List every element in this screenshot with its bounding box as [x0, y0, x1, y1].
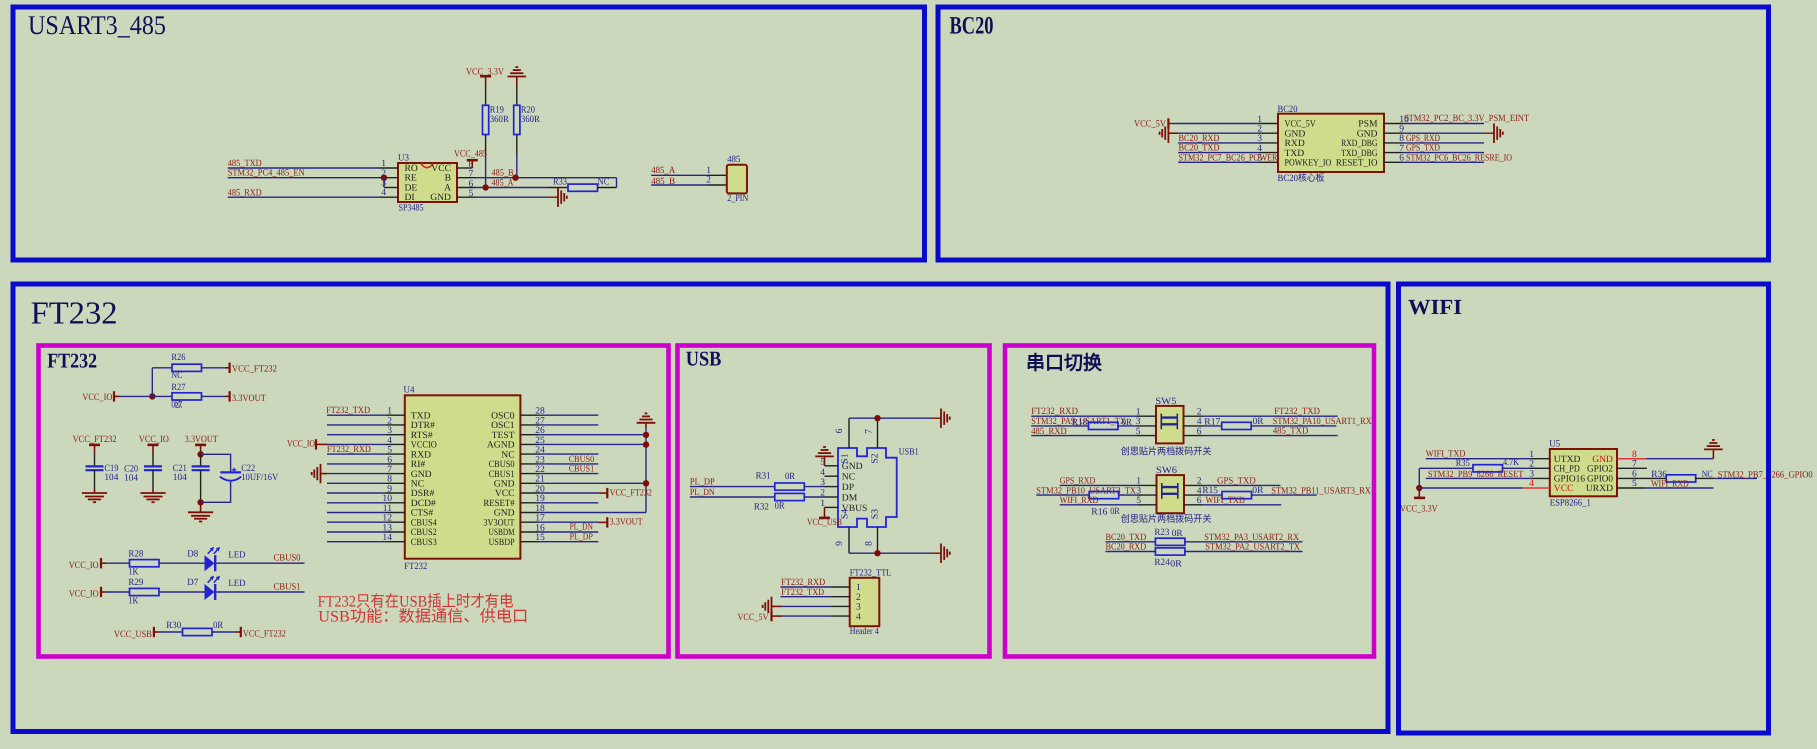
USB1 pin 8 stub	[877, 527, 879, 553]
capacitor C19 104	[86, 465, 104, 467]
resistor R30 0R	[183, 628, 213, 635]
wire SW5.2 FT232_TXD	[1184, 415, 1203, 417]
wire VCC_IO to R29	[106, 591, 129, 593]
svg-text:CBUS0: CBUS0	[274, 553, 301, 564]
junction C21/C22 top	[197, 451, 203, 457]
ground (BC20.9 right)	[1484, 132, 1494, 134]
svg-text:VCC_IO: VCC_IO	[139, 434, 169, 445]
connector USB1 outline	[838, 448, 897, 527]
wire C20 to ground	[152, 470, 154, 488]
wire GPS_TXD from BC20.7	[1384, 152, 1403, 154]
wire 485_RXD to SW5.5	[1031, 435, 1136, 437]
svg-text:R23: R23	[1154, 527, 1169, 538]
wire VCC to U5.4 (red)	[1419, 487, 1522, 489]
wire STM32_PC6_BC26_RESRE_IO from BC20.6	[1384, 161, 1403, 163]
wire RE-DE jog to U3.3	[383, 178, 385, 188]
wire R35 to U5.2	[1503, 467, 1531, 469]
svg-text:360R: 360R	[490, 114, 510, 125]
wire 485_RXD to U3.4	[228, 196, 379, 198]
svg-text:U5: U5	[1549, 438, 1560, 449]
wire WIFI_RXD to SW6.5	[1060, 504, 1137, 506]
svg-text:360R: 360R	[521, 114, 541, 125]
svg-text:NC: NC	[598, 176, 610, 187]
svg-text:104: 104	[124, 473, 138, 484]
svg-text:R30: R30	[166, 620, 181, 631]
svg-text:NC: NC	[842, 472, 855, 483]
wire STM32_PB9_8266_RESET to U5.3	[1426, 477, 1531, 479]
junction R26/R27	[149, 393, 155, 399]
wire R32 to USB1.2 DM	[804, 496, 824, 498]
svg-text:2: 2	[706, 175, 711, 186]
wire junction to R27	[152, 395, 172, 397]
svg-text:VCC_5V: VCC_5V	[1134, 118, 1166, 129]
ground (USB1 top)	[931, 417, 941, 419]
svg-text:R32: R32	[754, 502, 769, 513]
svg-text:0R: 0R	[775, 500, 786, 511]
wire WIFI_TXD to U5.1	[1426, 458, 1531, 460]
wire FT232_RXD to header.1	[781, 586, 831, 588]
svg-text:VBUS: VBUS	[842, 503, 868, 514]
SW6 ladder symbol	[1161, 483, 1163, 499]
diode D7 LED	[205, 584, 215, 600]
svg-text:VCC_3.3V: VCC_3.3V	[1400, 504, 1438, 515]
wire VCC_IO to R28	[106, 562, 129, 564]
svg-text:R24: R24	[1154, 557, 1169, 568]
wire SW6.2 GPS_TXD	[1184, 484, 1203, 486]
wire D7 to CBUS1	[217, 591, 305, 593]
svg-text:2_PIN: 2_PIN	[727, 193, 748, 204]
power port VCC_FT232 (U4.20)	[598, 492, 607, 494]
wire 485_B to J.2	[651, 184, 707, 186]
resistor R16 0R (SW6.3)	[1036, 494, 1089, 496]
resistor R36 (U5.6 GPIO0)	[1617, 477, 1666, 479]
ground (WIFI top right)	[1704, 448, 1723, 450]
svg-text:NC: NC	[171, 370, 182, 381]
junction USB1 top	[874, 415, 880, 421]
U4 left wires	[327, 414, 386, 416]
svg-text:创思贴片两档拨码开关: 创思贴片两档拨码开关	[1121, 513, 1212, 525]
svg-text:7: 7	[864, 429, 875, 434]
junction USB1 bottom	[874, 550, 880, 556]
resistor R24 0R	[1155, 548, 1185, 555]
wire R20 to node 485_B	[516, 135, 518, 155]
svg-text:R26: R26	[171, 352, 185, 363]
wire 485_A (U3.6)	[457, 187, 476, 189]
svg-text:6: 6	[834, 428, 845, 433]
junction RE/DE tie	[381, 175, 387, 181]
wire ground to header.3	[782, 605, 830, 607]
svg-text:VCC_USB: VCC_USB	[114, 629, 152, 640]
wire R23 to STM32_PA3_USART2_RX	[1185, 541, 1303, 543]
svg-text:FT232: FT232	[404, 561, 427, 572]
ground (U4 right rail)	[637, 422, 656, 424]
svg-text:FT232: FT232	[31, 294, 118, 330]
wire C22 branch	[201, 454, 231, 472]
resistor R27 0ohm	[172, 393, 202, 400]
capacitor C20 104	[144, 465, 162, 467]
chip U4 FT232	[405, 395, 521, 558]
svg-text:USB1: USB1	[899, 447, 919, 458]
svg-text:CBUS3: CBUS3	[411, 537, 437, 548]
power port 3.3VOUT (R27 right)	[229, 391, 231, 401]
svg-text:GND: GND	[842, 461, 863, 472]
svg-text:485: 485	[727, 154, 740, 165]
svg-text:485_A: 485_A	[492, 177, 514, 188]
resistor R28 1K	[130, 560, 160, 567]
power port VCC_FT232 (R30 right)	[240, 627, 242, 637]
block frame BC20	[938, 7, 1769, 260]
svg-text:U4: U4	[404, 385, 415, 396]
svg-text:4.7K: 4.7K	[1503, 457, 1519, 468]
svg-text:R28: R28	[128, 548, 143, 559]
svg-text:3.3VOUT: 3.3VOUT	[232, 393, 266, 404]
svg-text:VCC: VCC	[1554, 483, 1574, 494]
svg-text:VCC_FT232: VCC_FT232	[73, 434, 117, 445]
wire U5.5 WIFI_RXD	[1617, 487, 1646, 489]
svg-text:POWKEY_IO: POWKEY_IO	[1285, 158, 1332, 169]
USB1.4 NC stub	[825, 475, 839, 477]
wire BC20_RXD to BC20.3	[1178, 142, 1259, 144]
wire GPS_RXD to SW6.1	[1060, 484, 1137, 486]
svg-text:PL_DP: PL_DP	[570, 532, 593, 543]
wire BC20_TXD to R23	[1106, 541, 1156, 543]
capacitor C22 10UF/16V (polarized)	[220, 471, 241, 473]
wire vertical VCC branch	[1418, 468, 1420, 488]
svg-text:0R: 0R	[1252, 485, 1264, 496]
svg-text:LED: LED	[228, 578, 245, 589]
wire R28 to D8	[159, 562, 205, 564]
ground (top, near VCC_3.3V)	[508, 76, 527, 78]
wire R26 to VCC_FT232	[202, 367, 226, 369]
svg-text:8: 8	[864, 541, 875, 546]
block frame FT232 (outer)	[13, 284, 1388, 732]
svg-text:3.3VOUT: 3.3VOUT	[185, 434, 218, 445]
wire STM32_PC4_485_EN to U3.2	[228, 177, 379, 179]
U5.7 stub	[1617, 467, 1647, 469]
resistor R20 360R	[514, 105, 520, 134]
svg-text:104: 104	[104, 472, 118, 483]
svg-text:R27: R27	[171, 382, 185, 393]
svg-text:3.3VOUT: 3.3VOUT	[610, 516, 643, 527]
svg-text:USBDP: USBDP	[489, 537, 515, 548]
svg-text:VCC_485: VCC_485	[454, 148, 487, 159]
junction R19-485_A	[482, 184, 488, 190]
wire R27 to 3.3VOUT	[202, 395, 226, 397]
svg-text:104: 104	[173, 472, 187, 483]
svg-text:FT232: FT232	[47, 349, 97, 373]
wire junction up to R26	[151, 368, 153, 397]
wire R24 to STM32_PA2_USART2_TX	[1185, 551, 1303, 553]
wire U3.5 GND	[457, 196, 476, 198]
wire SW5.6 485_TXD	[1184, 435, 1203, 437]
resistor R32 0R	[775, 493, 805, 500]
power port 3.3VOUT (U4.17)	[598, 521, 607, 523]
wire BC20_TXD to BC20.4	[1178, 152, 1259, 154]
svg-text:10UF/16V: 10UF/16V	[241, 472, 278, 483]
chip BC20 (BC20 core board)	[1278, 114, 1384, 172]
wire C21 to ground	[200, 502, 202, 512]
svg-text:S2: S2	[870, 453, 881, 463]
svg-text:GND: GND	[430, 192, 451, 203]
svg-text:VCC_IO: VCC_IO	[69, 589, 99, 600]
svg-text:VCC_FT232: VCC_FT232	[243, 628, 286, 639]
svg-text:R35: R35	[1456, 458, 1470, 469]
svg-text:485_TXD: 485_TXD	[1273, 425, 1309, 436]
junction AGND rail	[643, 441, 649, 447]
wire GPS_RXD from BC20.8	[1384, 142, 1403, 144]
wire VCC_5V to header.4	[782, 615, 830, 617]
junction VCC_3.3V	[1416, 485, 1422, 491]
wire R19 to node 485_A	[485, 135, 487, 155]
wire FT232_RXD to SW5.1	[1031, 415, 1136, 417]
svg-text:STM32_PB11_USART3_RX: STM32_PB11_USART3_RX	[1271, 485, 1371, 496]
wire BC20.10 PSM	[1384, 123, 1403, 125]
svg-text:4: 4	[856, 611, 861, 622]
block frame serial-switch (magenta)	[1005, 346, 1374, 657]
svg-text:STM32_PB7_8266_GPIO0: STM32_PB7_8266_GPIO0	[1718, 469, 1813, 480]
junction GND21 rail	[643, 480, 649, 486]
power port VCC_3.3V (WIFI)	[1418, 488, 1420, 498]
svg-text:CBUS1: CBUS1	[569, 464, 595, 475]
ground at U3.5	[548, 196, 558, 198]
wire SW6.6 WIFI_TXD	[1184, 504, 1203, 506]
wire USB1 top shield to ground	[849, 417, 931, 419]
svg-text:9: 9	[834, 541, 845, 546]
ground (USB1.5 GND)	[825, 465, 839, 467]
svg-text:U3: U3	[398, 152, 409, 163]
wire USB1 bottom shield to ground	[849, 552, 931, 554]
svg-text:串口切换: 串口切换	[1026, 353, 1102, 375]
svg-text:0R: 0R	[1110, 506, 1120, 517]
svg-text:0欧: 0欧	[171, 399, 182, 411]
power port VCC_FT232 (R26 right)	[229, 363, 231, 373]
junction R20-485_B	[512, 175, 518, 181]
svg-text:RESET_IO: RESET_IO	[1336, 158, 1378, 169]
resistor R29 1K	[130, 588, 160, 595]
chip U5 ESP8266_1	[1550, 449, 1617, 496]
capacitor C21 104	[200, 454, 202, 466]
svg-text:创思贴片两档拨码开关: 创思贴片两档拨码开关	[1121, 446, 1212, 458]
svg-text:S3: S3	[870, 509, 881, 519]
svg-text:R29: R29	[128, 577, 143, 588]
svg-text:WIFI: WIFI	[1408, 295, 1462, 319]
wire R29 to D7	[159, 591, 205, 593]
svg-text:STM32_PC2_BC_3.3V_PSM_EINT: STM32_PC2_BC_3.3V_PSM_EINT	[1404, 113, 1529, 124]
wire 485_B (U3.7 to R33 right)	[457, 177, 476, 179]
USB1 pin 9 stub	[848, 527, 850, 553]
svg-text:R31: R31	[756, 471, 771, 482]
power port VCC_USB (USB1.1 VBUS)	[825, 506, 839, 508]
resistor R19 360R	[483, 105, 489, 134]
block frame USB (magenta)	[678, 346, 990, 657]
power port VCC_485 at U3.8	[457, 167, 472, 169]
svg-text:LED: LED	[228, 549, 245, 560]
svg-text:BC20核心板: BC20核心板	[1278, 172, 1325, 184]
wire U5.8 GND (red) to ground	[1617, 458, 1646, 460]
svg-text:NC: NC	[1702, 469, 1713, 480]
chip U3 SP3485	[398, 163, 457, 202]
wire BC20_RXD to R24	[1106, 551, 1156, 553]
wire C19 to ground	[94, 470, 96, 488]
wire VCC_IO to junction	[119, 395, 152, 397]
ground (C21)	[188, 511, 213, 513]
ground (C20)	[140, 492, 165, 494]
svg-text:DP: DP	[842, 482, 854, 493]
svg-text:0R: 0R	[785, 471, 796, 482]
svg-text:DI: DI	[405, 192, 415, 203]
wire FT232_TXD to header.2	[781, 596, 831, 598]
ground (header.3)	[771, 597, 773, 616]
svg-text:ESP8266_1: ESP8266_1	[1550, 498, 1591, 509]
svg-text:VCC_IO: VCC_IO	[69, 560, 99, 571]
svg-text:SP3485: SP3485	[399, 203, 424, 214]
svg-text:R33: R33	[553, 176, 567, 187]
svg-text:VCC_IO: VCC_IO	[82, 392, 112, 403]
ground (USB1 bottom)	[931, 552, 941, 554]
svg-text:USB: USB	[686, 347, 722, 371]
block frame FT232 (inner magenta)	[39, 346, 669, 657]
ground (U4.7 GND)	[320, 464, 322, 483]
svg-text:1: 1	[820, 498, 825, 509]
SW5 ladder symbol	[1160, 414, 1162, 430]
svg-text:VCC_5V: VCC_5V	[738, 612, 769, 623]
wire BC20.2 GND	[1178, 132, 1259, 134]
svg-text:0R: 0R	[1170, 559, 1182, 570]
svg-text:BC20: BC20	[950, 13, 994, 40]
wire STM32_PC7_BC26_POWER to BC20.5	[1178, 161, 1259, 163]
svg-text:D7: D7	[187, 577, 198, 588]
svg-text:PL_DN: PL_DN	[690, 487, 715, 498]
svg-text:USART3_485: USART3_485	[28, 10, 166, 40]
junction C21/C22 bottom	[197, 499, 203, 505]
wire BC20.9 GND	[1384, 132, 1403, 134]
svg-text:USB功能：数据通信、供电口: USB功能：数据通信、供电口	[318, 607, 528, 625]
svg-text:FT232_RXD: FT232_RXD	[327, 444, 371, 455]
ground (BC20.2 left)	[1167, 124, 1169, 143]
wire 485_A to J.1	[651, 174, 707, 176]
USB1 pin 6 stub	[848, 418, 850, 448]
wire 485_TXD to U3.1	[228, 167, 379, 169]
svg-text:0R: 0R	[213, 620, 224, 631]
svg-text:STM32_PA2_USART2_TX: STM32_PA2_USART2_TX	[1205, 542, 1300, 553]
svg-text:VCC_FT232: VCC_FT232	[610, 487, 653, 498]
svg-text:485_A: 485_A	[651, 165, 675, 176]
svg-text:4: 4	[820, 467, 825, 478]
svg-text:BC20: BC20	[1278, 104, 1298, 115]
diode D8 LED	[205, 555, 215, 571]
wire PL_DP to R31	[690, 486, 775, 488]
ground (C19)	[82, 492, 107, 494]
svg-text:D8: D8	[187, 548, 198, 559]
junction TEST rail	[643, 432, 649, 438]
svg-text:CBUS1: CBUS1	[274, 582, 301, 593]
resistor R26 NC	[172, 364, 202, 371]
U4 right wires	[520, 414, 539, 416]
block frame WIFI	[1399, 284, 1769, 733]
svg-text:VCC_FT232: VCC_FT232	[232, 363, 277, 374]
wire PL_DN to R32	[690, 496, 775, 498]
wire R30 to VCC_FT232	[212, 631, 236, 633]
svg-text:DM: DM	[842, 492, 858, 503]
resistor R31 0R	[775, 483, 805, 490]
svg-text:VCC_IO: VCC_IO	[287, 439, 315, 450]
svg-text:Header 4: Header 4	[850, 626, 879, 637]
block frame USART3_485	[13, 7, 925, 260]
svg-text:URXD: URXD	[1586, 483, 1613, 494]
svg-text:VCC_USB: VCC_USB	[807, 517, 842, 528]
wire D8 to CBUS0	[217, 562, 305, 564]
wire VCC_USB to R30	[159, 631, 183, 633]
wire R31 to USB1.3 DP	[804, 486, 824, 488]
resistor R33 NC terminator	[548, 187, 568, 189]
svg-text:1K: 1K	[128, 595, 138, 606]
svg-text:R16: R16	[1091, 507, 1107, 518]
wire ground rail vertical	[645, 428, 647, 513]
USB1 pin 7 stub	[877, 418, 879, 448]
svg-text:1K: 1K	[128, 567, 138, 578]
